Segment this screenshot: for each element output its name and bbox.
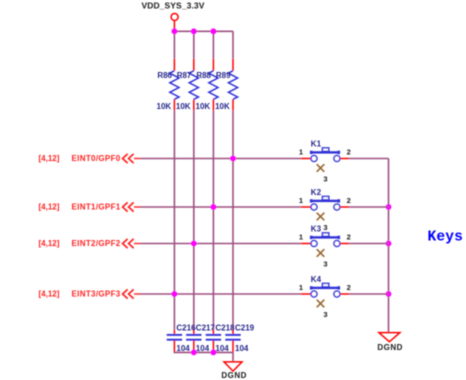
svg-text:10K: 10K bbox=[176, 102, 191, 111]
svg-text:DGND: DGND bbox=[221, 371, 247, 380]
svg-text:EINT1/GPF1: EINT1/GPF1 bbox=[72, 203, 121, 212]
svg-text:[4,12]: [4,12] bbox=[39, 154, 60, 163]
svg-text:K2: K2 bbox=[311, 188, 322, 197]
svg-text:[4,12]: [4,12] bbox=[39, 203, 60, 212]
svg-text:3: 3 bbox=[323, 260, 327, 269]
svg-text:2: 2 bbox=[347, 283, 351, 292]
svg-text:3: 3 bbox=[323, 310, 327, 319]
svg-text:3: 3 bbox=[323, 175, 327, 184]
svg-text:10K: 10K bbox=[215, 102, 230, 111]
svg-text:C216: C216 bbox=[176, 324, 196, 333]
svg-text:EINT2/GPF2: EINT2/GPF2 bbox=[72, 239, 121, 248]
svg-text:3: 3 bbox=[323, 223, 327, 232]
svg-text:R86: R86 bbox=[157, 71, 172, 80]
svg-text:EINT0/GPF0: EINT0/GPF0 bbox=[72, 154, 121, 163]
svg-text:2: 2 bbox=[347, 196, 351, 205]
svg-text:EINT3/GPF3: EINT3/GPF3 bbox=[72, 290, 121, 299]
svg-text:10K: 10K bbox=[157, 102, 172, 111]
svg-text:104: 104 bbox=[235, 344, 249, 353]
svg-text:1: 1 bbox=[299, 283, 303, 292]
svg-text:1: 1 bbox=[299, 233, 303, 242]
svg-text:DGND: DGND bbox=[377, 343, 403, 352]
svg-text:10K: 10K bbox=[196, 102, 211, 111]
svg-text:R87: R87 bbox=[177, 71, 192, 80]
svg-text:2: 2 bbox=[347, 148, 351, 157]
svg-text:VDD_SYS_3.3V: VDD_SYS_3.3V bbox=[141, 0, 204, 10]
svg-text:2: 2 bbox=[347, 233, 351, 242]
svg-text:[4,12]: [4,12] bbox=[39, 239, 60, 248]
svg-text:C219: C219 bbox=[235, 324, 255, 333]
svg-text:C217: C217 bbox=[196, 324, 216, 333]
svg-text:Keys: Keys bbox=[428, 229, 463, 245]
svg-text:1: 1 bbox=[299, 148, 303, 157]
svg-text:K3: K3 bbox=[311, 224, 322, 233]
svg-text:R88: R88 bbox=[196, 71, 211, 80]
svg-text:1: 1 bbox=[299, 196, 303, 205]
svg-text:R89: R89 bbox=[216, 71, 231, 80]
svg-text:K4: K4 bbox=[311, 275, 322, 284]
svg-text:[4,12]: [4,12] bbox=[39, 290, 60, 299]
svg-text:K1: K1 bbox=[311, 139, 322, 148]
svg-text:C218: C218 bbox=[215, 324, 235, 333]
